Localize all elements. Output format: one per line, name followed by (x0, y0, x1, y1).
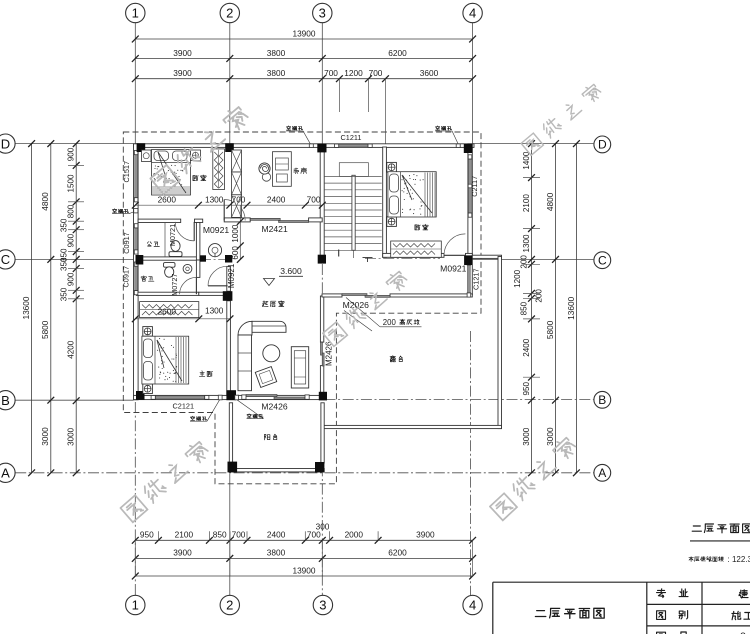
table cell 二层平面图 (535, 608, 604, 618)
dimension line 3900/3800/6200 bottom (135, 557, 472, 559)
svg-text:2600: 2600 (158, 194, 177, 204)
sliding door M2421 corridor (250, 218, 280, 220)
svg-text:850: 850 (213, 530, 227, 540)
svg-text:13900: 13900 (292, 565, 315, 575)
svg-text:C1211: C1211 (341, 133, 362, 142)
svg-text:2600: 2600 (158, 307, 177, 317)
terrace south curb (324, 425, 502, 428)
svg-text:200: 200 (520, 255, 529, 269)
interior dim line 2600/1300 master (135, 318, 230, 320)
svg-text:900: 900 (67, 147, 76, 161)
corner post master top (143, 327, 153, 337)
grid circle 2 bottom (220, 595, 239, 614)
svg-text:2100: 2100 (522, 194, 531, 213)
svg-text:B: B (598, 393, 606, 407)
svg-text:2100: 2100 (175, 530, 194, 540)
right extension stubs (523, 177, 540, 179)
toilet WC2 (164, 263, 176, 268)
label bedroom2 卧室 (415, 224, 428, 230)
wardrobe master (140, 302, 199, 318)
terrace north curb segment 2 (390, 294, 472, 297)
grid line row D (15, 143, 133, 145)
bedside table right (191, 150, 201, 161)
label guest WC 公卫 (147, 242, 159, 247)
svg-text:900: 900 (67, 233, 76, 247)
living east wall upper (320, 296, 323, 342)
balcony west wall (229, 403, 232, 463)
svg-text:2400: 2400 (522, 338, 531, 357)
corridor wall segment 4 (309, 218, 323, 222)
wash basin WC2 (183, 264, 192, 273)
door M0921 bedroom2 (444, 254, 465, 256)
leader M2026 (344, 311, 372, 332)
door M0721 guest WC (193, 222, 195, 241)
svg-text:C: C (1, 252, 10, 267)
window C0917 lower (135, 266, 138, 290)
svg-text:4800: 4800 (40, 192, 50, 211)
corridor wall segment 2 (195, 219, 203, 222)
svg-text:2: 2 (226, 598, 233, 613)
svg-text:3900: 3900 (416, 530, 435, 540)
grid circle 2 top (220, 3, 239, 22)
svg-text:900: 900 (67, 272, 76, 286)
svg-text:3000: 3000 (40, 427, 50, 446)
svg-text:1300: 1300 (205, 306, 224, 316)
window C1517 (135, 155, 138, 198)
TV cabinet (291, 347, 308, 388)
bath south wall / master north (136, 292, 198, 295)
bath east wall (guest WC) (196, 223, 200, 261)
AC hole label left wall (113, 209, 129, 213)
shower divider guest WC (164, 223, 166, 257)
svg-text:950: 950 (522, 381, 531, 395)
dimension line 3900/3800/700/1200/700/3600 top (135, 78, 472, 80)
interior vertical dim 1000/600 (239, 205, 241, 259)
round table (263, 345, 280, 362)
svg-text:200: 200 (383, 318, 397, 327)
svg-text:600: 600 (231, 246, 240, 260)
column vestibule SE (223, 291, 233, 301)
svg-text:4800: 4800 (545, 192, 555, 211)
grid circle 4 bottom (463, 595, 482, 614)
stairs landing rail (339, 163, 368, 177)
living east wall lower (320, 366, 323, 400)
exterior wall row B (south) (134, 395, 327, 399)
table cell 图别 (657, 611, 688, 620)
interior dim line 2600/1300/700/2400/700 (135, 204, 322, 206)
column col3/D (317, 144, 326, 153)
bedside table left (142, 150, 152, 162)
column col1/C (136, 255, 144, 265)
corner post master bottom (143, 384, 153, 394)
grid circle D right (594, 136, 611, 153)
window C2121 (155, 396, 204, 399)
living west wall / master east wall (227, 301, 231, 396)
balcony south wall (229, 469, 324, 472)
svg-text:3900: 3900 (173, 48, 192, 58)
grid circle 4 top (463, 3, 482, 22)
column col4/D (464, 144, 473, 153)
svg-text:3800: 3800 (267, 48, 286, 58)
AC hole label top middle (287, 126, 303, 130)
wardrobe bedroom2 (391, 241, 442, 257)
extension stubs bottom (157, 531, 159, 540)
row C tee mark (363, 257, 373, 259)
label living room 起居室 (262, 301, 284, 307)
dimension line 950/2100/850/700/2400/700/300/2000/3900 bottom (135, 539, 472, 541)
bottom extension verticals (134, 540, 136, 576)
window C1211 (339, 144, 368, 147)
dimension line 13900 bottom (135, 575, 472, 577)
corner post bedroom2 bottom (387, 217, 397, 227)
sofa L-shape (252, 321, 286, 332)
label WC2 客卫 (141, 276, 154, 281)
column balcony SE (315, 462, 324, 472)
svg-text:M0921: M0921 (227, 263, 236, 288)
grid circle D left (0, 134, 15, 153)
svg-text:2400: 2400 (267, 530, 286, 540)
svg-text:1: 1 (132, 6, 139, 21)
grid circle 1 bottom (126, 595, 145, 614)
right dim line 13600 (575, 144, 577, 473)
exterior wall column 1 (west) (134, 144, 139, 400)
bed bedroom1 (152, 150, 191, 196)
svg-text:1: 1 (132, 598, 139, 613)
wash basin hall (208, 244, 221, 257)
svg-text:2000: 2000 (345, 530, 364, 540)
svg-text:3: 3 (319, 6, 326, 21)
table cell 专业 (657, 589, 688, 598)
sliding door M2426 living-terrace (321, 342, 323, 355)
rug (255, 367, 276, 388)
svg-text:D: D (1, 136, 10, 151)
dimension line 13900 top (135, 38, 472, 40)
svg-text:M0727: M0727 (170, 274, 179, 296)
label bedroom1 卧室 (193, 175, 206, 181)
svg-text:6200: 6200 (388, 548, 407, 558)
svg-text:800: 800 (67, 204, 76, 218)
svg-text:C1517: C1517 (122, 161, 131, 183)
column vestibule NE (225, 255, 232, 263)
title block table (493, 582, 750, 634)
vestibule south wall (199, 292, 225, 295)
label study 书房 (294, 168, 307, 174)
label balcony 阳台 (264, 434, 276, 440)
WC2 east wall upper (196, 260, 200, 277)
AC hole label bottom left (191, 416, 207, 420)
roof overhang dashed outline (123, 132, 481, 484)
chair study (262, 173, 270, 181)
svg-text:6200: 6200 (388, 48, 407, 58)
door M0727 WC2 (195, 277, 197, 294)
column col2/D (225, 143, 234, 152)
grid line column 3 (321, 23, 323, 147)
svg-text:C: C (598, 254, 607, 268)
svg-text:1300: 1300 (522, 234, 531, 253)
column col1/D (137, 143, 146, 152)
grid circle A left (0, 463, 15, 482)
svg-text:A: A (598, 466, 606, 480)
window C1217 (468, 265, 471, 293)
svg-text:M2421: M2421 (261, 224, 287, 234)
toilet guest WC (171, 241, 180, 252)
window C0917 upper (135, 228, 138, 250)
svg-text:3: 3 (319, 598, 326, 613)
svg-text:4200: 4200 (67, 340, 76, 359)
left extension stubs (68, 164, 84, 166)
bed master (142, 336, 189, 384)
svg-text:5800: 5800 (40, 320, 50, 339)
svg-text:1500: 1500 (67, 174, 76, 193)
corridor wall segment 3 (224, 218, 250, 222)
plant study (259, 163, 270, 174)
terrace north curb segment 1 (322, 294, 342, 297)
right dim line 1400/2100/1300/200/1200/200/850/2400/950/3000 (531, 144, 533, 473)
stairs center stringer (352, 175, 355, 250)
svg-text:3900: 3900 (173, 548, 192, 558)
exterior wall column 4 (east) (468, 144, 472, 295)
table cell 建 (739, 590, 748, 598)
svg-text:3000: 3000 (522, 427, 531, 446)
dimension line 3900/3800/6200 top (135, 58, 472, 60)
svg-text:C0917: C0917 (122, 232, 131, 254)
right dim line 4800/5800/3000 (555, 144, 557, 473)
stairs treads (324, 176, 381, 250)
watermark D bottom-left (120, 439, 211, 522)
svg-text:1300: 1300 (205, 194, 224, 204)
grid line column 2 (229, 23, 231, 144)
svg-text:A: A (1, 465, 10, 480)
grid circle C left (0, 250, 15, 269)
flue duct boxes with X (232, 150, 242, 172)
svg-text:3800: 3800 (267, 548, 286, 558)
table cell 施工 (732, 611, 750, 619)
svg-text:C2117: C2117 (470, 176, 479, 197)
svg-text:1000: 1000 (231, 224, 240, 243)
column bath/C (200, 255, 206, 261)
svg-text:2: 2 (226, 6, 233, 21)
title 二层平面图 underlined (692, 524, 750, 533)
grid line row B (15, 399, 133, 401)
svg-text:3000: 3000 (67, 427, 76, 446)
column balcony SW (228, 462, 238, 473)
svg-text:3900: 3900 (173, 68, 192, 78)
column col3/C (318, 255, 326, 264)
watermark B top-right (520, 82, 603, 155)
subtitle 本层建筑面积 122.3 (689, 557, 723, 562)
bedroom2 south wall row C segment 2 (466, 253, 473, 257)
grid circle 3 top (313, 3, 332, 22)
AC hole label bottom right (247, 414, 263, 418)
grid line row A (15, 472, 593, 474)
wardrobe bedroom1 (213, 149, 225, 190)
grid line column 1 (134, 23, 136, 144)
left dim line 13600 (31, 144, 33, 473)
svg-text:850: 850 (520, 301, 529, 315)
svg-text:M0921: M0921 (203, 225, 229, 235)
bath divider wall row C (138, 257, 199, 260)
svg-text:200: 200 (535, 289, 544, 303)
terrace north link wall at row C (472, 255, 501, 258)
bedroom2 south wall row C segment 1 (383, 253, 444, 257)
column col3/B balcony NE (319, 392, 327, 401)
svg-text:300: 300 (316, 522, 330, 532)
svg-text:950: 950 (140, 530, 154, 540)
extension stubs top (338, 79, 340, 112)
grid circle 1 top (126, 3, 145, 22)
svg-text:5800: 5800 (545, 320, 555, 339)
terrace east curb (498, 257, 502, 429)
column col4/C (464, 255, 472, 265)
svg-text:2400: 2400 (267, 194, 286, 204)
svg-text:3.600: 3.600 (280, 266, 302, 276)
svg-text:3000: 3000 (545, 427, 555, 446)
watermark A top-left (149, 104, 250, 194)
left dim line 900/1500/800/350/900/350/350/900/350/4200/3000 (75, 144, 77, 473)
svg-text:C1217: C1217 (471, 268, 480, 290)
sliding door M2426 balcony (246, 395, 277, 397)
grid circle B right (594, 391, 611, 408)
svg-text:13900: 13900 (292, 28, 315, 38)
label master 主卧 (199, 371, 212, 377)
grid circle A right (594, 464, 611, 481)
door M0921 vestibule (208, 285, 228, 287)
stairs direction mark (338, 250, 340, 257)
svg-text:M0921: M0921 (440, 264, 466, 274)
svg-text:: 122.3: : 122.3 (728, 555, 750, 564)
svg-text:4: 4 (469, 598, 476, 613)
grid line row C (15, 258, 133, 260)
desk study (273, 152, 292, 187)
grid circle C right (594, 252, 611, 269)
living west wall upper (227, 266, 231, 291)
svg-text:350: 350 (60, 218, 69, 232)
label terrace 露台 (390, 356, 402, 362)
bed bedroom2 (388, 172, 436, 217)
svg-text:C0917: C0917 (121, 266, 130, 288)
svg-text:13600: 13600 (21, 296, 31, 319)
svg-text:1200: 1200 (344, 68, 363, 78)
stair west wall col3 (320, 147, 324, 263)
svg-text:D: D (598, 138, 607, 152)
svg-text:350: 350 (60, 287, 69, 301)
corridor wall bath segment (138, 219, 181, 222)
left dim line 4800/5800/3000 (50, 144, 52, 473)
svg-text:M0721: M0721 (168, 224, 177, 246)
AC hole label top right (436, 126, 452, 130)
column balcony NW (226, 390, 236, 400)
door M0921 corridor (hall to corridor) (223, 200, 225, 221)
grid line column 4 (472, 23, 474, 144)
svg-text:B: B (1, 393, 10, 408)
svg-text:3800: 3800 (267, 68, 286, 78)
table cell 图号 partial (657, 632, 688, 634)
svg-text:3600: 3600 (420, 68, 439, 78)
watermark E bottom-right (489, 435, 578, 520)
svg-text:C2121: C2121 (173, 402, 195, 411)
grid circle B left (0, 391, 15, 410)
sliding door M2026 terrace (342, 294, 367, 296)
exterior wall row D (north) (134, 144, 475, 148)
stair east wall / bedroom2 west wall (383, 147, 387, 257)
window C2117 (469, 159, 472, 213)
column col1/B (136, 391, 145, 400)
svg-text:700: 700 (232, 530, 246, 540)
corner post bedroom2 top (387, 162, 397, 172)
svg-text:700: 700 (324, 68, 338, 78)
svg-text:350: 350 (60, 257, 69, 271)
svg-text:M2426: M2426 (261, 401, 287, 411)
grid circle 3 bottom (313, 595, 332, 614)
svg-text:700: 700 (307, 194, 321, 204)
svg-text:700: 700 (369, 68, 383, 78)
balcony east wall (321, 403, 324, 463)
svg-text:700: 700 (232, 194, 246, 204)
svg-text:13600: 13600 (566, 296, 576, 319)
watermark C center (322, 269, 409, 347)
svg-text:1200: 1200 (513, 269, 522, 288)
svg-text:4: 4 (469, 6, 476, 21)
